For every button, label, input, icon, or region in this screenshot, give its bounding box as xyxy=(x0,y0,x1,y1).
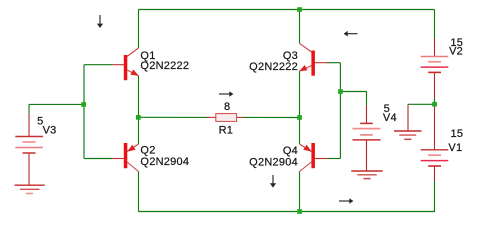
wire Q4 base wire xyxy=(327,158,340,160)
voltage source V2 (15V battery) xyxy=(421,57,449,73)
junction node V2/V1 xyxy=(432,102,437,107)
wire base node to V4 (horizontal) xyxy=(340,91,366,93)
wire R1 left wire xyxy=(138,116,208,118)
wire V2 top pin xyxy=(434,38,436,57)
wire V3 top pin xyxy=(28,104,30,114)
annotation arrow down (top left) xyxy=(97,15,103,28)
wire left inner vertical middle (Q1 emitter to Q2 emitter) xyxy=(138,76,140,144)
transistor Q3 (Q2N2222 NPN, facing left) xyxy=(299,43,327,75)
wire V2 bottom pin to node xyxy=(434,72,436,98)
voltage source V4 (5V battery, flipped) xyxy=(353,123,381,139)
wire right inner vertical middle (Q3 emitter to Q4 emitter) xyxy=(299,71,301,144)
voltage source V3 (5V battery) xyxy=(15,137,43,154)
svg-text:V2: V2 xyxy=(449,46,463,58)
svg-text:15: 15 xyxy=(451,128,464,140)
annotation arrow left (top right) xyxy=(344,31,358,37)
wire R1 right wire xyxy=(242,116,300,118)
wire Q3 base wire xyxy=(327,62,340,64)
svg-text:Q2N2222: Q2N2222 xyxy=(249,61,298,73)
junction node Q3/Q4 base xyxy=(338,89,343,94)
resistor R1 xyxy=(207,114,244,122)
wire right rail top (top rail to V2) xyxy=(434,10,436,39)
wire V4 bottom pin to ground 2 xyxy=(366,140,368,171)
svg-text:Q2N2904: Q2N2904 xyxy=(249,157,298,169)
ground (right, below V2/V1 node) xyxy=(394,131,422,139)
wire left inner vertical top (Q1 collector to top rail) xyxy=(138,10,140,49)
wire left inner vertical bottom (Q2 collector to bottom rail) xyxy=(138,172,140,212)
ground (below V4) xyxy=(351,171,382,179)
wire left branch vertical (Q1 base to Q2 base) xyxy=(83,65,85,159)
svg-text:Q4: Q4 xyxy=(283,145,298,157)
svg-text:8: 8 xyxy=(224,101,230,113)
wire right inner vertical top (Q3 collector to top rail) xyxy=(299,10,301,44)
junction node bottom rail xyxy=(297,209,302,214)
wire ground 3 pin xyxy=(407,104,409,131)
ground (below V3) xyxy=(15,185,45,193)
wire V3 bottom pin to ground 1 xyxy=(28,153,30,185)
junction node V3 tap xyxy=(81,102,86,107)
svg-text:Q2N2904: Q2N2904 xyxy=(140,156,189,168)
wire bottom rail xyxy=(139,211,436,213)
transistor Q2 (Q2N2904 PNP, facing right) xyxy=(112,143,139,172)
annotation arrow right (above R1) xyxy=(219,91,233,97)
wire top rail xyxy=(139,9,435,11)
wire node to ground stub (horizontal) xyxy=(408,103,435,105)
svg-text:Q2: Q2 xyxy=(140,145,155,157)
wire node down to V1 xyxy=(434,104,436,150)
svg-text:V1: V1 xyxy=(448,142,462,154)
junction node R1 left xyxy=(136,115,141,120)
voltage source V1 (15V battery) xyxy=(421,150,449,166)
junction node top rail xyxy=(297,7,302,12)
wire right inner vertical bottom (Q4 collector to bottom rail) xyxy=(299,172,301,212)
transistor Q4 (Q2N2904 PNP, facing left) xyxy=(300,143,328,172)
transistor Q1 (Q2N2222 NPN, facing right) xyxy=(112,48,139,80)
svg-text:Q2N2222: Q2N2222 xyxy=(140,60,189,72)
wire V3 tap horizontal xyxy=(29,103,84,105)
wire Q3/Q4 base vertical xyxy=(339,63,341,159)
wire V1 bottom pin xyxy=(434,166,436,181)
wire Q2 base wire xyxy=(84,158,112,160)
annotation arrow down (bottom) xyxy=(270,175,276,188)
svg-text:V4: V4 xyxy=(383,112,397,124)
wire Q1 base wire xyxy=(84,64,112,66)
svg-text:R1: R1 xyxy=(219,124,234,136)
svg-text:V3: V3 xyxy=(43,125,57,137)
annotation arrow right (bottom) xyxy=(339,198,353,204)
wire V4 top pin xyxy=(366,92,368,106)
junction node R1 right xyxy=(297,115,302,120)
